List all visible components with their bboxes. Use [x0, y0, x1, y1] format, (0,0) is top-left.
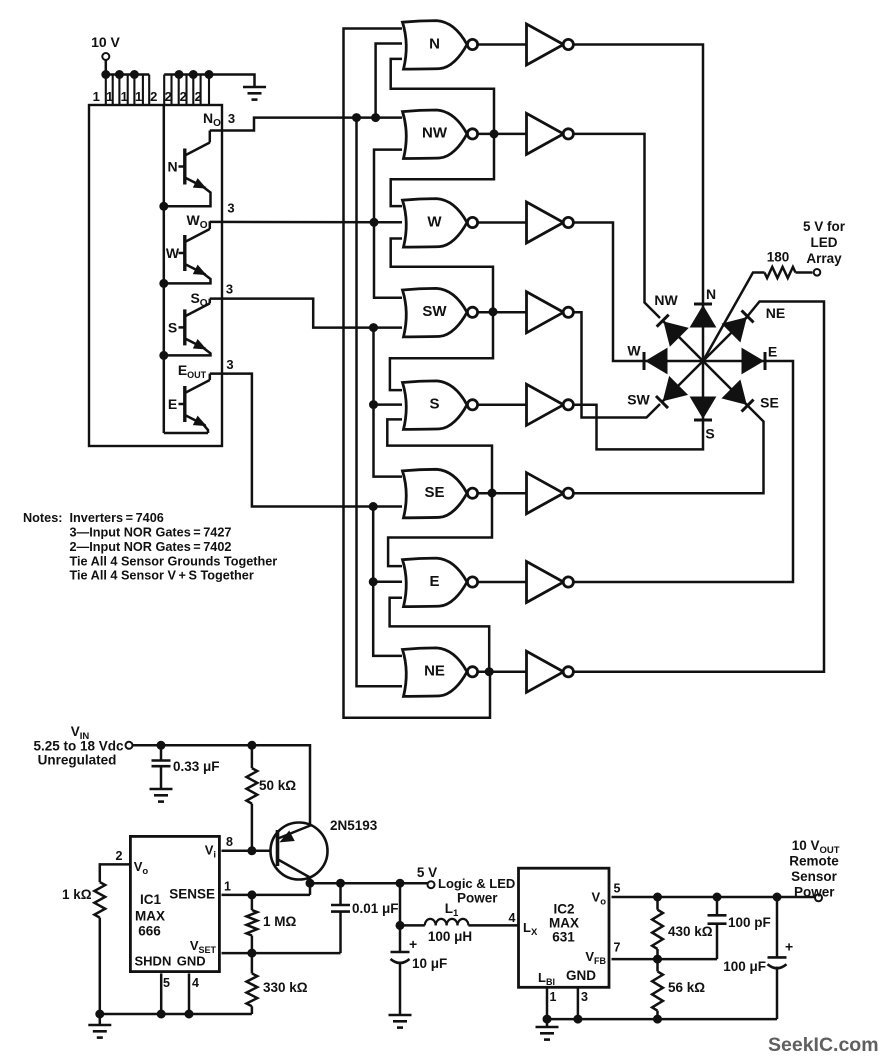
wire 1M top lead — [251, 895, 254, 910]
phototransistor E — [179, 374, 210, 433]
transistor 2N5193 body — [271, 823, 328, 880]
inverter N (7406) — [527, 24, 564, 65]
wire V_IN rail — [133, 745, 311, 824]
svg-text:2: 2 — [180, 89, 187, 104]
3-input NOR gate SW (7427/7402) — [403, 288, 468, 337]
junction Vi node — [248, 847, 256, 855]
junction rail/pin4 — [185, 1010, 193, 1018]
junction SENSE/1M — [248, 891, 256, 899]
junction on V+ bus pin1c — [130, 71, 138, 79]
LED SW — [656, 361, 703, 408]
svg-text:Logic & LED: Logic & LED — [438, 876, 515, 891]
ground IC1 — [88, 1025, 111, 1038]
svg-text:2: 2 — [165, 89, 172, 104]
junction NE output — [485, 668, 493, 676]
wire SW output to S upper input — [390, 312, 493, 390]
10V out terminal — [815, 894, 822, 901]
wire 1k bottom — [99, 918, 102, 1014]
junction W emitter to rail — [160, 279, 168, 287]
svg-text:MAX: MAX — [549, 916, 579, 931]
svg-text:IC1: IC1 — [140, 892, 162, 907]
junction rail/pin5 — [157, 1010, 165, 1018]
svg-text:+: + — [785, 939, 793, 955]
wire 0.33uF top lead — [160, 745, 163, 760]
svg-text:SENSE: SENSE — [169, 887, 215, 902]
wire 10uF top lead — [399, 925, 402, 952]
svg-text:5 V: 5 V — [417, 865, 437, 880]
wire 56k bottom — [656, 1011, 659, 1019]
notes text — [23, 511, 277, 583]
wire N lower input to NW output — [391, 59, 494, 134]
svg-text:E: E — [768, 344, 777, 360]
junction rail/56k — [654, 1015, 662, 1023]
Vout rail — [612, 896, 816, 899]
wire 180 to terminal — [796, 271, 813, 274]
svg-text:LED: LED — [811, 235, 838, 250]
resistor 50 k — [247, 768, 258, 804]
resistor 330 k — [247, 973, 258, 1006]
resistor 180 — [765, 267, 796, 278]
svg-text:2: 2 — [150, 89, 157, 104]
IC2 GND pin lead — [577, 988, 580, 1019]
svg-text:4: 4 — [192, 976, 199, 990]
svg-text:3—Input NOR Gates = 7427: 3—Input NOR Gates = 7427 — [70, 526, 232, 540]
svg-text:666: 666 — [138, 924, 161, 939]
junction VSET/1M/330k — [248, 949, 256, 957]
svg-text:0.01 μF: 0.01 μF — [352, 901, 399, 916]
junction collector/5V — [306, 879, 314, 887]
svg-text:SeekIC.com: SeekIC.com — [768, 1034, 879, 1056]
svg-text:1: 1 — [106, 89, 113, 104]
junction rail/1k — [96, 1010, 104, 1018]
wire inverter NW to LED NW — [574, 134, 660, 318]
phototransistor S — [164, 299, 211, 356]
svg-text:2: 2 — [116, 849, 123, 863]
wire L1 node down — [399, 883, 402, 925]
inverter SE (7406) — [527, 473, 564, 514]
wire NOR NW output to inverter — [479, 133, 528, 136]
junction Vout/100pF — [713, 893, 721, 901]
IC2 MAX631 box — [519, 868, 610, 987]
LED E — [703, 349, 765, 374]
wire SENSE pin 1 — [222, 894, 311, 897]
capacitor 100 uF (polarized) — [768, 956, 787, 959]
svg-text:Sensor: Sensor — [791, 869, 838, 884]
wire inductor to Lx — [468, 924, 518, 927]
junction rail/GND pin — [574, 1015, 582, 1023]
VFB line — [612, 958, 718, 961]
svg-text:W: W — [627, 343, 641, 359]
svg-text:SW: SW — [422, 303, 447, 320]
wire inverter E to LED E — [574, 361, 793, 582]
svg-text:100 pF: 100 pF — [728, 915, 771, 930]
wire 330k bottom lead — [251, 1006, 254, 1014]
svg-text:Tie All 4 Sensor V + S Togethe: Tie All 4 Sensor V + S Together — [70, 569, 254, 583]
wire Vi pin 8 — [222, 850, 277, 853]
svg-text:10 μF: 10 μF — [412, 956, 447, 971]
wire W_O output — [210, 221, 402, 224]
wire W_O to NW lower input — [374, 150, 402, 298]
svg-text:Remote: Remote — [789, 854, 839, 869]
IC1 pin5 lead — [160, 973, 163, 1014]
junction E net at E row — [369, 578, 377, 586]
svg-text:430 kΩ: 430 kΩ — [668, 924, 713, 939]
LED NE — [703, 310, 754, 361]
svg-text:W: W — [166, 245, 180, 261]
ground IC2 — [536, 1027, 559, 1040]
V_IN terminal — [126, 742, 133, 749]
3-input NOR gate NE (7427/7402) — [403, 648, 468, 697]
wire E net vertical SE-E-NE — [373, 507, 402, 582]
5V logic rail — [310, 882, 428, 885]
wire 50k top lead — [251, 745, 254, 768]
wire NE-out wrap to N input (left run) — [344, 29, 491, 718]
svg-text:2—Input NOR Gates = 7402: 2—Input NOR Gates = 7402 — [70, 540, 232, 554]
resistor 430 k — [652, 910, 663, 949]
LED S — [691, 361, 716, 420]
wire NOR N output to inverter — [479, 43, 528, 46]
junction SW output — [489, 308, 497, 316]
svg-text:8: 8 — [226, 835, 233, 849]
inverter E (7406) — [527, 562, 564, 603]
5V LED array terminal — [814, 269, 821, 276]
wire W lower input to SW output — [391, 239, 493, 312]
IC1 pin4 lead — [188, 973, 191, 1014]
junction SE output — [488, 489, 496, 497]
svg-text:N: N — [167, 159, 177, 175]
resistor 56 k — [652, 971, 663, 1010]
wire 100pF bottom — [716, 924, 719, 959]
junction on gnd bus pin2d — [205, 71, 213, 79]
svg-text:1: 1 — [135, 89, 142, 104]
junction on V+ bus pin1a — [102, 71, 110, 79]
junction S_O / SW branch — [370, 324, 378, 332]
wire node to inductor — [400, 924, 425, 927]
inverter S (7406) — [527, 384, 564, 425]
capacitor 10 uF (polarized) — [391, 951, 410, 954]
3-input NOR gate SE (7427/7402) — [403, 469, 468, 518]
wire 330k top lead — [251, 953, 254, 973]
junction S net — [370, 401, 378, 409]
svg-text:NE: NE — [766, 305, 785, 321]
junction N emitter to rail — [160, 202, 168, 210]
svg-text:SE: SE — [760, 395, 779, 411]
svg-text:MAX: MAX — [135, 909, 165, 924]
junction on gnd bus pin2c — [189, 71, 197, 79]
wire E net to NE upper input — [373, 582, 402, 656]
svg-text:10 V: 10 V — [91, 34, 120, 50]
svg-text:E: E — [429, 573, 439, 590]
sensor rail bottom — [164, 432, 208, 435]
junction VIN/50k — [248, 741, 256, 749]
wire E_OUT output — [210, 374, 402, 507]
wire Vo pin 2 — [100, 864, 131, 882]
wire NOR S output to inverter — [479, 404, 528, 407]
svg-text:5: 5 — [614, 882, 621, 896]
svg-text:56 kΩ: 56 kΩ — [668, 980, 705, 995]
svg-text:1: 1 — [121, 89, 128, 104]
svg-text:GND: GND — [566, 968, 596, 983]
wire inverter N to LED N — [574, 45, 703, 304]
svg-text:100 μF: 100 μF — [723, 959, 766, 974]
svg-text:1: 1 — [224, 880, 231, 894]
3-input NOR gate S (7427/7402) — [403, 381, 468, 430]
LED W — [644, 349, 703, 374]
svg-text:1: 1 — [550, 990, 557, 1004]
transistor 2N5193 internals — [278, 825, 312, 883]
svg-text:IC2: IC2 — [553, 902, 574, 917]
svg-text:3: 3 — [226, 357, 233, 372]
wire 430k top — [656, 897, 659, 910]
wire NW output to W upper input — [391, 134, 494, 206]
svg-text:Inverters = 7406: Inverters = 7406 — [70, 511, 164, 525]
wire inverter NE to LED NE — [574, 302, 824, 672]
svg-text:2N5193: 2N5193 — [330, 818, 378, 833]
wire NOR SE output to inverter — [479, 492, 528, 495]
wire 0.01uF bottom — [339, 912, 342, 954]
wire inverter SW to LED SW — [574, 312, 660, 417]
svg-text:631: 631 — [552, 930, 575, 945]
junction S emitter to rail — [160, 351, 168, 359]
junction N_O / N branch — [372, 114, 380, 122]
wire 10V terminal to bus — [105, 60, 108, 75]
svg-text:5 V for: 5 V for — [803, 219, 846, 234]
phototransistor W — [164, 221, 211, 283]
wire S_O net SW-S-SE vertical — [374, 328, 403, 405]
svg-text:Array: Array — [806, 251, 842, 266]
IC1 ground rail — [100, 1013, 252, 1016]
svg-text:3: 3 — [228, 111, 235, 126]
wire 56k top — [656, 959, 659, 971]
svg-text:100 μH: 100 μH — [428, 929, 472, 944]
junction rail/LBI — [543, 1015, 551, 1023]
resistor 1 k — [94, 882, 105, 918]
LED N — [691, 304, 716, 361]
junction 10uF node — [396, 921, 404, 929]
inverter NW (7406) — [527, 113, 564, 154]
wire rail to ground — [99, 1014, 102, 1025]
svg-text:2: 2 — [195, 89, 202, 104]
svg-text:5.25 to 18 Vdc: 5.25 to 18 Vdc — [33, 739, 124, 754]
IC2 ground rail — [547, 1018, 777, 1021]
wire 5V to SENSE — [309, 883, 312, 895]
svg-text:+: + — [409, 936, 417, 952]
wire 100uF top — [776, 897, 779, 957]
wire inverter SE to LED SE — [574, 404, 764, 493]
wire N_O to NE input (vertical) — [357, 118, 403, 687]
wire inverter W to LED W — [574, 223, 644, 362]
svg-text:330 kΩ: 330 kΩ — [263, 980, 308, 995]
5V logic terminal — [428, 881, 435, 888]
wire NOR SW output to inverter — [479, 311, 528, 314]
capacitor 0.33 uF — [152, 759, 171, 762]
wire rail to IC2 ground — [546, 1019, 549, 1027]
wire LED common to 180 ohm — [703, 273, 765, 362]
svg-text:SW: SW — [627, 392, 650, 408]
svg-text:7: 7 — [614, 941, 621, 955]
wire N_O output — [210, 118, 402, 131]
wire 0.33uF bottom lead — [160, 766, 163, 789]
phototransistor N — [164, 131, 211, 207]
svg-text:4: 4 — [509, 911, 516, 925]
capacitor 0.01 uF — [331, 904, 350, 907]
svg-text:Tie All 4 Sensor Grounds Toget: Tie All 4 Sensor Grounds Together — [70, 555, 278, 569]
svg-text:1 MΩ: 1 MΩ — [263, 914, 297, 929]
junction E net at SE row — [369, 503, 377, 511]
svg-text:3: 3 — [227, 201, 234, 216]
svg-text:SE: SE — [424, 484, 444, 501]
svg-text:3: 3 — [581, 990, 588, 1004]
wire 0.01uF top — [339, 883, 342, 905]
resistor 1 M — [247, 910, 258, 936]
wire 10uF bottom lead — [399, 962, 402, 1016]
wire E lower input to NE output — [390, 598, 490, 672]
LED NW — [657, 315, 703, 361]
svg-text:SHDN: SHDN — [135, 954, 172, 969]
svg-text:W: W — [427, 213, 442, 230]
3-input NOR gate N (7427/7402) — [403, 21, 468, 70]
svg-text:GND: GND — [177, 954, 206, 969]
wire inverter S to LED S — [574, 405, 703, 450]
svg-text:Unregulated: Unregulated — [38, 753, 117, 768]
junction on V+ bus pin1b — [115, 71, 123, 79]
svg-text:Power: Power — [794, 884, 835, 899]
wire NOR NE output to inverter — [479, 671, 528, 674]
ground 0.33uF — [150, 789, 173, 802]
svg-text:1: 1 — [93, 89, 100, 104]
wire 100pF top — [716, 897, 719, 915]
svg-text:Notes:: Notes: — [23, 511, 62, 525]
capacitor 100 pF — [708, 914, 727, 917]
IC2 LBI pin lead — [546, 988, 549, 1019]
svg-text:NW: NW — [422, 125, 448, 142]
LED SE — [703, 361, 754, 412]
svg-text:E: E — [168, 396, 177, 412]
svg-text:N: N — [429, 35, 440, 52]
svg-text:N: N — [706, 286, 716, 302]
wire 1M bottom lead — [251, 936, 254, 954]
wire 430k bottom — [656, 949, 659, 959]
junction on gnd bus pin2b — [175, 71, 183, 79]
wire 50k to Vi node — [251, 804, 254, 851]
wire 100uF bottom — [776, 967, 779, 1020]
IC1 MAX666 box — [130, 836, 219, 971]
junction NW output — [490, 130, 498, 138]
junction Vout/430k — [654, 893, 662, 901]
junction VFB/430k/56k — [654, 955, 662, 963]
inverter SW (7406) — [527, 292, 564, 333]
wire NOR W output to inverter — [479, 221, 528, 224]
3-input NOR gate W (7427/7402) — [403, 199, 468, 248]
sensor module box — [89, 105, 222, 446]
svg-text:NE: NE — [424, 663, 445, 680]
connector pin numbers 1 1 1 1 2 2 2 2 — [93, 89, 202, 104]
svg-text:50 kΩ: 50 kΩ — [259, 778, 296, 793]
inductor L1 100uH — [425, 919, 469, 926]
inverter NE (7406) — [527, 651, 564, 692]
junction VIN/0.33uF — [157, 741, 165, 749]
inverter W (7406) — [527, 202, 564, 243]
wire S lower input to SE output — [387, 419, 492, 493]
junction L1 node/5V — [396, 879, 404, 887]
svg-text:NW: NW — [654, 292, 678, 308]
junction Vout/100uF — [773, 893, 781, 901]
svg-text:0.33 μF: 0.33 μF — [173, 759, 220, 774]
wire N_O to N gate mid input — [376, 44, 402, 118]
svg-text:5: 5 — [163, 976, 170, 990]
junction W_O / NW-SW branch — [370, 218, 378, 226]
wire NOR E output to inverter — [479, 581, 528, 584]
3-input NOR gate NW (7427/7402) — [403, 110, 468, 159]
wire VSET pin — [222, 952, 341, 955]
svg-text:180: 180 — [767, 250, 790, 265]
svg-text:S: S — [168, 319, 177, 335]
connector pin leads — [106, 75, 209, 106]
wire S_O output — [210, 299, 402, 328]
junction N_O / NE branch — [353, 114, 361, 122]
svg-text:S: S — [705, 426, 714, 442]
svg-text:Power: Power — [457, 891, 498, 906]
wire S net to SE upper input — [374, 405, 403, 477]
sensor emitter rail — [163, 105, 166, 433]
10 V terminal — [102, 53, 109, 60]
ground (sensor common) — [243, 87, 266, 100]
V+ bus (pins 1) — [103, 73, 149, 76]
svg-text:1 kΩ: 1 kΩ — [62, 887, 92, 902]
junction 0.01uF/5V — [337, 879, 345, 887]
ground bus (pins 2) — [164, 75, 254, 88]
ground 10uF — [389, 1015, 412, 1028]
svg-text:3: 3 — [226, 282, 233, 297]
3-input NOR gate E (7427/7402) — [403, 558, 468, 607]
svg-text:S: S — [429, 396, 439, 413]
wire SE output to E upper input — [388, 493, 492, 566]
